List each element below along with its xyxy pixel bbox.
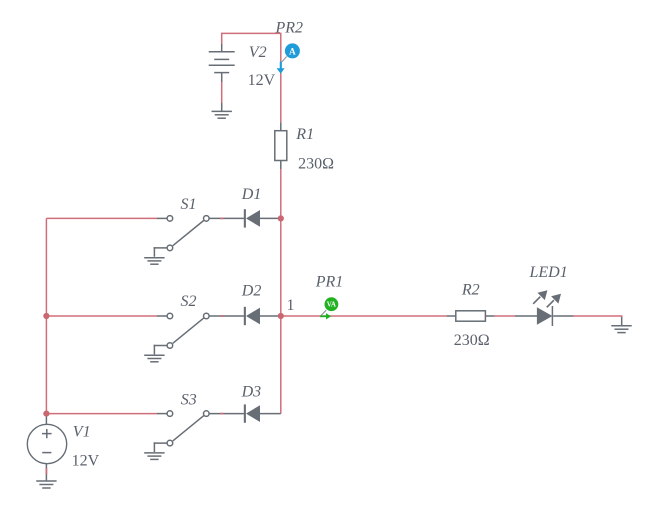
- svg-text:D3: D3: [241, 384, 262, 401]
- svg-text:230Ω: 230Ω: [454, 332, 490, 349]
- junction dot node 1: [278, 313, 284, 319]
- wire: left rail S1 to V1: [45, 218, 47, 413]
- ground under V2: [212, 111, 232, 118]
- wire: V2 negative to ground: [221, 81, 223, 103]
- label PR1: [315, 274, 344, 291]
- wire stub: S2 ground corner: [154, 345, 156, 347]
- wire: row1 to S1: [46, 217, 157, 219]
- label R2: [461, 282, 480, 299]
- label PR2: [275, 20, 304, 37]
- label R1: [295, 126, 314, 143]
- svg-text:A: A: [289, 48, 296, 58]
- wire stub: S1 ground corner: [154, 247, 156, 249]
- svg-text:V1: V1: [73, 424, 91, 441]
- wire: row3 to S3: [46, 413, 157, 415]
- value 12V (V2): [248, 72, 276, 89]
- ground under V1: [36, 481, 56, 488]
- diode D3: [244, 404, 281, 422]
- label S1: [181, 196, 197, 213]
- wire stub: S3 ground corner: [154, 442, 156, 444]
- svg-text:S2: S2: [181, 293, 197, 310]
- svg-text:PR2: PR2: [275, 20, 304, 37]
- node label 1: [287, 297, 295, 314]
- diode D1: [244, 209, 281, 227]
- ground under S3: [144, 453, 164, 460]
- svg-text:VA: VA: [327, 301, 336, 309]
- wire: S3 pole to D3: [220, 413, 223, 415]
- diode D2: [244, 307, 281, 325]
- probe PR2 (ammeter): [277, 43, 300, 73]
- wire: R2 to LED1: [494, 315, 515, 317]
- ground under S1: [144, 258, 164, 265]
- svg-text:R1: R1: [295, 126, 314, 143]
- wire: right rail R1 bottom to D3 corner: [280, 169, 282, 414]
- battery V2: [209, 44, 235, 112]
- svg-text:R2: R2: [461, 282, 480, 299]
- value 230Ω (R2): [454, 332, 490, 349]
- svg-text:D1: D1: [241, 186, 262, 203]
- wire: S3 pole-diode red segment: [220, 413, 223, 415]
- wire: S1 pole to D1: [220, 217, 223, 219]
- label S2: [181, 293, 197, 310]
- svg-text:1: 1: [287, 297, 295, 314]
- value 12V (V1): [72, 453, 100, 470]
- wire: S2 pole to D2: [220, 315, 223, 317]
- junction dot left rail S2: [43, 313, 49, 319]
- wire: row2 to S2: [46, 315, 157, 317]
- svg-text:12V: 12V: [72, 453, 100, 470]
- value 230Ω (R1): [298, 155, 334, 172]
- LED LED1: [515, 290, 573, 326]
- svg-text:V2: V2: [249, 44, 267, 61]
- ground right of LED1: [611, 317, 631, 332]
- resistor R2: [447, 311, 494, 321]
- junction dot left rail V1: [43, 411, 49, 417]
- label S3: [181, 391, 197, 408]
- voltage source V1: [27, 414, 66, 481]
- wire: node 1 to R2: [281, 315, 447, 317]
- wire: S1 pole-diode red segment: [220, 217, 223, 219]
- wire: V1 bottom red segment: [45, 468, 47, 474]
- svg-text:230Ω: 230Ω: [298, 155, 334, 172]
- switch S3: [154, 411, 244, 452]
- switch S1: [154, 216, 244, 257]
- svg-text:D2: D2: [241, 283, 262, 300]
- label V1: [73, 424, 91, 441]
- wire top: V2 positive to right rail down to R1: [222, 33, 281, 122]
- label V2: [249, 44, 267, 61]
- label D1: [241, 186, 262, 203]
- resistor R1: [275, 122, 287, 169]
- ground under S2: [144, 355, 164, 362]
- label D2: [241, 283, 262, 300]
- svg-text:LED1: LED1: [529, 264, 568, 281]
- junction dot D1/right rail: [278, 215, 284, 221]
- svg-text:S1: S1: [181, 196, 197, 213]
- wire: V1 bottom to ground: [45, 468, 47, 474]
- svg-text:PR1: PR1: [315, 274, 344, 291]
- svg-text:S3: S3: [181, 391, 197, 408]
- svg-text:12V: 12V: [248, 72, 276, 89]
- label LED1: [529, 264, 568, 281]
- wire: LED1 to right ground: [573, 316, 622, 318]
- probe PR1 (volt-ammeter): [320, 297, 338, 319]
- wire: S2 pole-diode red segment: [220, 315, 223, 317]
- label D3: [241, 384, 262, 401]
- switch S2: [154, 313, 244, 354]
